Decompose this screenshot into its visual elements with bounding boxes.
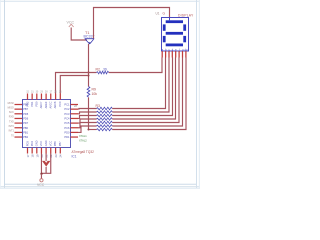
wire B from chip top pin8 to emitter [60, 76, 88, 94]
svg-text:BC337: BC337 [84, 35, 95, 39]
svg-text:VCC: VCC [49, 141, 53, 147]
resistor R5 zigzag [97, 114, 113, 117]
frame outer right edge [198, 0, 200, 189]
svg-text:24: 24 [59, 154, 63, 157]
IC1 right pin names inside [64, 103, 70, 140]
wire collector of T1 up and right to display [94, 8, 170, 39]
frame outer bottom edge [0, 188, 200, 190]
frame border left [4, 0, 6, 189]
IC1 bottom pin names inside (vertical) [25, 140, 62, 146]
IC1 bottom pins [28, 148, 61, 154]
svg-text:PB7: PB7 [23, 107, 28, 111]
display segment E [163, 36, 166, 42]
svg-text:19: 19 [35, 154, 39, 157]
wire triangle apex down to U [45, 167, 47, 173]
svg-text:PD2: PD2 [25, 101, 29, 107]
junction emitter/row7 [88, 129, 90, 131]
resistor R2 zigzag horizontal [96, 71, 108, 74]
svg-text:31: 31 [31, 91, 34, 94]
ground triangle symbol [42, 161, 50, 167]
supply symbol bottom circle [40, 179, 43, 182]
svg-text:PC6: PC6 [64, 126, 70, 130]
resistor R7 zigzag [97, 121, 113, 124]
display segment C [183, 36, 186, 42]
svg-text:PD4: PD4 [30, 141, 34, 147]
resistor R4 zigzag [97, 111, 113, 114]
IC1 left pin names inside [23, 103, 29, 140]
svg-text:PD1: PD1 [64, 135, 70, 139]
svg-text:PC4: PC4 [64, 117, 70, 121]
svg-text:32: 32 [26, 91, 29, 94]
frame border bottom outer [0, 186, 200, 188]
svg-text:GND: GND [35, 140, 39, 146]
wire row2 chip pin to resistor to display pin3 [78, 112, 97, 114]
svg-text:PC2: PC2 [64, 107, 70, 111]
svg-text:GND: GND [44, 140, 48, 146]
svg-text:PD0: PD0 [35, 101, 39, 107]
wire row4 chip pin to resistor to display pin5 [78, 119, 97, 123]
junction at GND drop [40, 173, 42, 175]
resistor R9 zigzag vertical [87, 87, 90, 98]
svg-text:PD0: PD0 [64, 131, 70, 135]
wire row3 chip pin to resistor to display pin4 [78, 116, 97, 119]
display body [162, 18, 189, 52]
svg-text:PD5: PD5 [23, 112, 29, 116]
display segment D [166, 44, 183, 47]
IC1 ATmega8 chip body [23, 100, 71, 148]
svg-text:XTAL1: XTAL1 [79, 134, 87, 138]
display bottom pins [162, 51, 186, 58]
IC1 right pins [71, 105, 79, 138]
svg-text:PD1: PD1 [30, 101, 34, 107]
svg-text:29: 29 [40, 91, 43, 94]
display segment B [183, 24, 186, 30]
supply VCC symbol top [67, 21, 75, 28]
svg-text:AREF: AREF [44, 101, 48, 108]
svg-text:VCC: VCC [37, 183, 45, 187]
wire GND pin4 down [41, 154, 50, 174]
svg-text:17: 17 [26, 154, 30, 157]
svg-text:MISO: MISO [8, 106, 14, 109]
wire row1 chip pin to resistor to display pin2 [78, 108, 97, 111]
svg-text:PB1: PB1 [23, 131, 28, 135]
svg-text:28: 28 [45, 91, 48, 94]
junction emitter/wireA [88, 72, 90, 74]
svg-text:G: G [163, 12, 166, 16]
display pin letter labels [162, 47, 188, 51]
svg-text:PD7: PD7 [23, 121, 29, 125]
svg-text:10k: 10k [92, 92, 98, 96]
svg-text:RXD: RXD [9, 116, 14, 119]
wire row6 chip pin to resistor to display pin7 [78, 126, 97, 132]
svg-text:39: 39 [103, 67, 107, 71]
svg-text:PD3: PD3 [25, 141, 29, 147]
wire row5 chip pin to resistor to display pin6 [78, 123, 97, 128]
svg-text:PB0: PB0 [23, 126, 28, 130]
display segment A [166, 20, 183, 23]
svg-text:26: 26 [54, 91, 57, 94]
display top pin stub inside [169, 17, 171, 20]
svg-text:27: 27 [50, 91, 53, 94]
IC1 bottom pin labels outside (vertical) [26, 154, 63, 157]
frame border right [196, 0, 198, 189]
wire emitter lower section to row7 [88, 98, 90, 130]
frame outer left edge [0, 0, 1, 189]
svg-text:ATmega8 TQ32: ATmega8 TQ32 [72, 150, 95, 154]
svg-text:TXD: TXD [9, 120, 14, 123]
svg-text:30: 30 [36, 91, 39, 94]
IC1 top pin numbers outside [26, 91, 62, 94]
svg-text:PC0: PC0 [58, 101, 62, 107]
IC1 left pin labels outside [8, 102, 15, 138]
IC1 top pins [28, 94, 61, 100]
svg-text:R9: R9 [92, 88, 96, 92]
wire down to supply symbol [40, 174, 42, 179]
IC1 top pin names inside (vertical) [25, 101, 62, 109]
frame border bottom inner [5, 183, 197, 185]
svg-text:T0: T0 [11, 134, 14, 137]
svg-text:XTAL2: XTAL2 [79, 139, 87, 143]
svg-text:25: 25 [59, 91, 62, 94]
IC1 left pins [15, 105, 23, 138]
display segment G [166, 32, 183, 35]
svg-text:VCC: VCC [39, 141, 43, 147]
svg-text:DISPLAY: DISPLAY [178, 14, 194, 18]
wire A from chip top pin7 to emitter and resistor R2 [56, 73, 97, 94]
svg-text:18: 18 [31, 154, 35, 157]
svg-text:R2: R2 [96, 67, 100, 71]
junction emitter/wireB [88, 75, 90, 77]
resistor R8 zigzag [97, 125, 113, 128]
svg-text:IC1: IC1 [72, 155, 77, 159]
svg-text:VCC: VCC [67, 21, 75, 25]
display segment F [163, 24, 166, 30]
resistor R10 zigzag [97, 128, 113, 131]
svg-text:PC1: PC1 [64, 103, 70, 107]
svg-text:ADC7: ADC7 [39, 101, 43, 108]
wire VCC to base of T1 [71, 28, 87, 41]
svg-text:PC5: PC5 [64, 121, 70, 125]
svg-text:MOSI: MOSI [8, 102, 14, 105]
wire GND pin5 down to triangle [45, 154, 47, 162]
svg-text:PC3: PC3 [64, 112, 70, 116]
resistor R3 zigzag [97, 107, 113, 110]
wire row7 emitter junction to resistor to display pin8 [89, 129, 97, 131]
wire emitter of T1 down [88, 44, 90, 87]
svg-text:SCK: SCK [9, 111, 14, 114]
transistor T1 symbol [85, 39, 95, 45]
svg-text:ADC6: ADC6 [53, 101, 57, 108]
svg-text:PB6: PB6 [53, 141, 57, 146]
svg-text:PD6: PD6 [23, 117, 29, 121]
svg-text:U1: U1 [156, 12, 160, 16]
svg-text:PB2: PB2 [23, 135, 28, 139]
wire R2 to display pin1 [109, 58, 162, 73]
svg-text:AVCC: AVCC [49, 101, 53, 108]
resistor R6 zigzag [97, 118, 113, 121]
svg-text:INT1: INT1 [9, 130, 15, 133]
frame border top [0, 0, 200, 2]
svg-text:PB7: PB7 [58, 141, 62, 146]
svg-text:INT0: INT0 [9, 125, 15, 128]
svg-text:23: 23 [54, 154, 58, 157]
